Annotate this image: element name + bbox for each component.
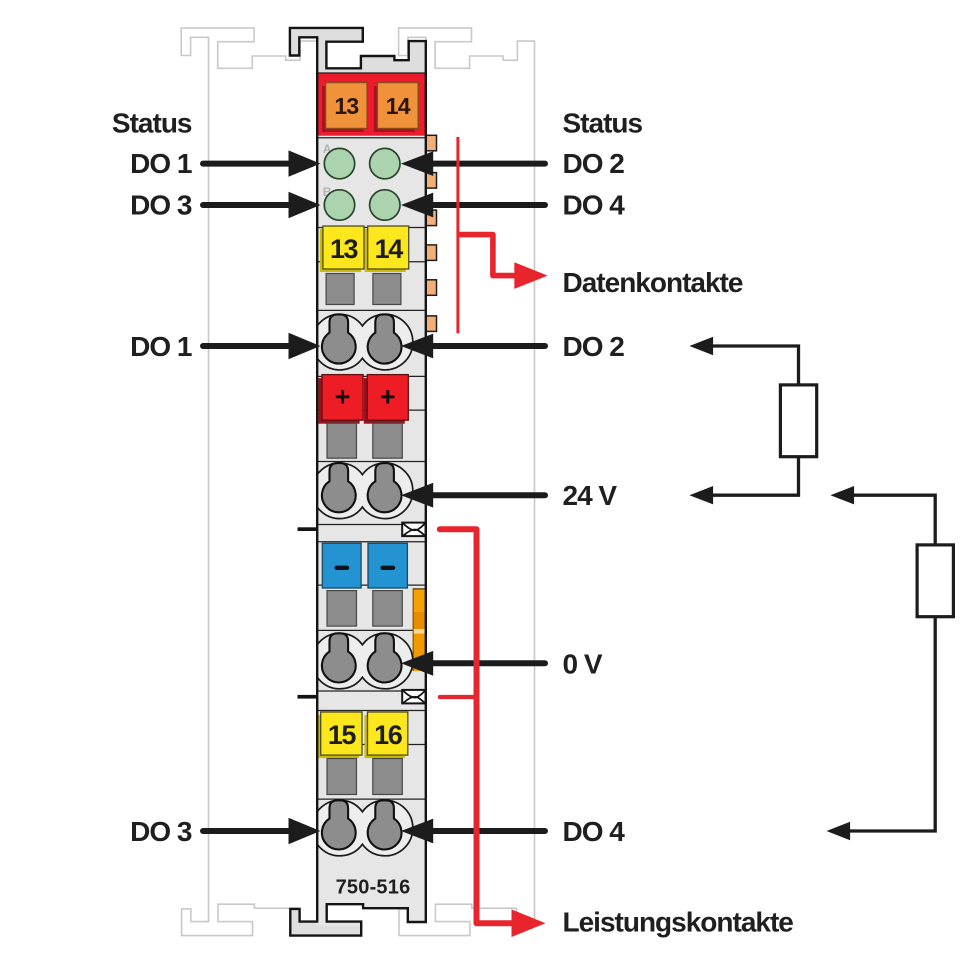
svg-text:Datenkontakte: Datenkontakte bbox=[563, 267, 743, 298]
svg-text:0 V: 0 V bbox=[563, 648, 603, 679]
svg-text:DO 1: DO 1 bbox=[130, 331, 192, 362]
svg-text:DO 3: DO 3 bbox=[130, 816, 192, 847]
svg-text:15: 15 bbox=[328, 720, 357, 750]
svg-text:16: 16 bbox=[374, 720, 403, 750]
svg-text:DO 1: DO 1 bbox=[130, 148, 192, 179]
svg-text:DO 4: DO 4 bbox=[563, 816, 626, 847]
svg-text:14: 14 bbox=[375, 234, 404, 264]
svg-text:Status: Status bbox=[112, 107, 192, 138]
svg-text:13: 13 bbox=[330, 234, 359, 264]
svg-text:24 V: 24 V bbox=[563, 480, 618, 511]
svg-text:13: 13 bbox=[334, 93, 358, 119]
svg-text:750-516: 750-516 bbox=[336, 877, 411, 899]
svg-text:DO 2: DO 2 bbox=[563, 331, 625, 362]
svg-text:Leistungskontakte: Leistungskontakte bbox=[563, 907, 794, 938]
svg-text:DO 4: DO 4 bbox=[563, 190, 626, 221]
svg-text:DO 3: DO 3 bbox=[130, 190, 192, 221]
svg-text:14: 14 bbox=[386, 93, 411, 119]
svg-text:DO 2: DO 2 bbox=[563, 148, 625, 179]
svg-text:Status: Status bbox=[563, 107, 643, 138]
